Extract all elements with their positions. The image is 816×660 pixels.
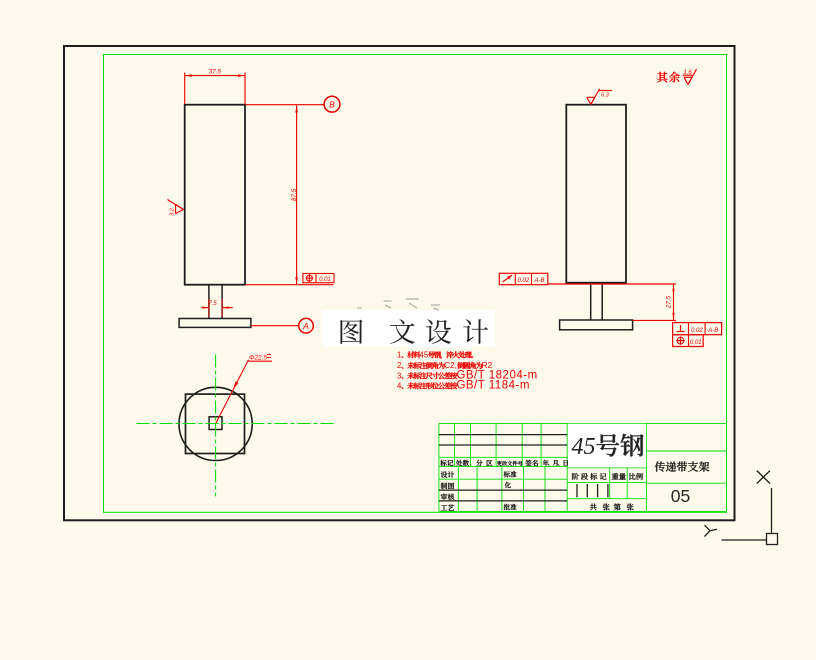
svg-text:2: 2 — [397, 361, 401, 370]
svg-text:A-B: A-B — [533, 278, 544, 284]
svg-text:45: 45 — [572, 434, 596, 460]
svg-text:B: B — [329, 100, 335, 110]
svg-text:A: A — [302, 321, 309, 331]
svg-text:6.3: 6.3 — [601, 92, 610, 98]
svg-text:0.01: 0.01 — [690, 340, 702, 346]
svg-text:C2,: C2, — [444, 361, 457, 370]
svg-text:05: 05 — [671, 486, 690, 506]
svg-text:45: 45 — [420, 351, 429, 360]
svg-text:27.5: 27.5 — [666, 295, 673, 309]
svg-text:3: 3 — [397, 371, 401, 380]
svg-text:0.02: 0.02 — [518, 278, 530, 284]
svg-text:0.02: 0.02 — [691, 328, 703, 334]
svg-text:0.01: 0.01 — [319, 277, 331, 283]
svg-text:4: 4 — [397, 382, 402, 391]
svg-text:A-B: A-B — [707, 328, 718, 334]
svg-text:1.6: 1.6 — [683, 70, 692, 76]
svg-text:1: 1 — [397, 351, 401, 360]
svg-text:GB/T 1184-m: GB/T 1184-m — [456, 380, 529, 392]
svg-text:Φ22.5: Φ22.5 — [249, 355, 267, 362]
svg-text:3.2: 3.2 — [170, 208, 176, 216]
svg-text:37.5: 37.5 — [209, 69, 222, 76]
svg-text:7.5: 7.5 — [208, 301, 217, 307]
svg-text:87.5: 87.5 — [291, 188, 298, 201]
